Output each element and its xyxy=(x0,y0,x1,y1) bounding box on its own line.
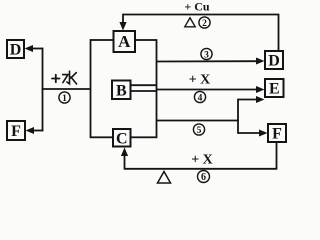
wire: B to right edge lower xyxy=(131,90,157,92)
arrow 2: into A top xyxy=(119,22,126,31)
svg-text:6: 6 xyxy=(201,172,206,183)
box A xyxy=(114,31,136,52)
arrow 6: into C bottom xyxy=(121,148,128,157)
svg-text:+ Cu: + Cu xyxy=(184,0,210,14)
wire: top left drop into A xyxy=(122,14,124,23)
svg-text:+ X: + X xyxy=(189,73,211,88)
wire 5: horizontal from right bus edge xyxy=(157,120,239,122)
wire: top +Cu line xyxy=(123,14,279,16)
svg-text:5: 5 xyxy=(197,126,202,136)
wire: top right drop into D xyxy=(278,14,280,51)
label +water xyxy=(52,75,60,82)
wire: +water line from left bus edge xyxy=(42,88,91,90)
label circled 2 xyxy=(199,17,210,29)
svg-text:D: D xyxy=(10,42,22,59)
box B xyxy=(112,81,131,100)
svg-text:D: D xyxy=(268,53,280,70)
box right E xyxy=(265,79,284,98)
wire: vertical split for 5 xyxy=(237,99,239,134)
wire: B to right edge upper xyxy=(131,84,157,86)
box right D xyxy=(265,51,283,70)
hanzi water glyph xyxy=(63,71,77,84)
svg-text:F: F xyxy=(272,126,282,143)
label circled 3 xyxy=(201,48,212,60)
svg-text:+ X: + X xyxy=(191,153,213,168)
arrow 1b: into left F xyxy=(31,130,43,132)
box left D xyxy=(7,40,24,59)
svg-text:B: B xyxy=(116,82,127,99)
wire: branch down to F xyxy=(238,132,261,134)
arrow 5a head into E xyxy=(256,96,265,103)
wire: bottom left rise into C xyxy=(124,155,126,170)
svg-text:C: C xyxy=(116,130,128,147)
svg-text:3: 3 xyxy=(204,51,209,61)
wire 4: to E xyxy=(157,89,259,91)
label circled 1 xyxy=(59,92,70,104)
svg-text:1: 1 xyxy=(62,94,67,104)
svg-text:2: 2 xyxy=(202,19,207,29)
wire 3: to right D xyxy=(157,60,259,62)
label circled 4 xyxy=(194,91,205,103)
triangle delta bottom xyxy=(158,172,171,184)
svg-text:F: F xyxy=(11,123,21,140)
arrow 1a: into left D xyxy=(30,48,43,50)
label circled 6 xyxy=(198,171,210,184)
box right F xyxy=(268,124,286,143)
central bus rectangle xyxy=(91,40,157,137)
box C xyxy=(113,129,131,147)
svg-text:E: E xyxy=(269,81,280,98)
wire: left vertical split xyxy=(42,48,44,132)
svg-text:4: 4 xyxy=(198,94,203,104)
wire: bottom +X line xyxy=(125,168,277,170)
wire: bottom right rise to F xyxy=(276,142,278,170)
triangle delta top xyxy=(185,18,195,27)
label circled 5 xyxy=(193,124,204,136)
svg-text:A: A xyxy=(118,32,131,51)
box left F xyxy=(7,121,25,140)
arrow 5b head into F xyxy=(259,130,268,137)
wire: branch up to E xyxy=(238,99,258,101)
arrow 3 head xyxy=(256,58,265,65)
arrow 4 head xyxy=(256,86,265,93)
